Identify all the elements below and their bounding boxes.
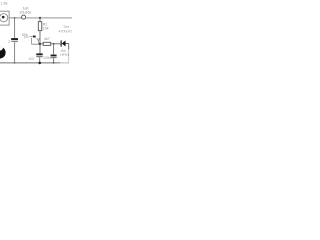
svg-text:The: The: [63, 25, 69, 29]
transistor Q1 emitter-collector fork: [37, 38, 40, 44]
svg-text:100u: 100u: [43, 56, 51, 60]
wire R1 bottom to C3: [39, 31, 41, 54]
svg-text:2: 2: [8, 40, 10, 44]
capacitor C3 plate 2: [36, 56, 42, 57]
capacitor C3 plate 1: [36, 53, 42, 55]
svg-text:10k: 10k: [43, 27, 49, 31]
wire C3 to ground rail: [39, 57, 41, 63]
wire C2 to ground rail: [14, 42, 16, 63]
node junction ground at x=53.6: [53, 62, 55, 64]
capacitor C1 (series coupling cap in top rail): [22, 15, 26, 19]
svg-text:100: 100: [28, 57, 34, 61]
node junction ground at x=39.7: [38, 62, 41, 65]
label Q1: [44, 37, 50, 41]
svg-text:R1: R1: [43, 23, 48, 27]
resistor R2: [43, 42, 51, 45]
svg-text:4k7: 4k7: [44, 37, 50, 41]
wire emitter node horizontal: [32, 43, 40, 45]
svg-text:4700uF00: 4700uF00: [59, 29, 73, 33]
label text right annotation: [63, 25, 69, 29]
label 50k (pot label): [22, 33, 28, 37]
svg-text:pot: pot: [24, 35, 29, 39]
wire C4 to ground rail: [53, 58, 55, 63]
wire C4 stem down: [53, 44, 55, 55]
node junction at (53.6,43.8): [53, 43, 55, 45]
label D1: [61, 49, 67, 53]
node junction at x=40 top rail: [39, 17, 41, 19]
diode D1 triangle: [62, 41, 66, 47]
label MIC (top-left): [0, 2, 7, 6]
wire diode to right corner: [66, 43, 69, 45]
wire base stub: [30, 36, 33, 38]
wire node to R2: [40, 43, 43, 45]
earphone logo disc: [0, 46, 6, 59]
svg-text:20u16v: 20u16v: [20, 11, 32, 15]
node junction at x=14.6 top rail: [14, 17, 16, 19]
capacitor C2 plate 1: [11, 38, 18, 40]
wire R1 top stub: [39, 18, 41, 22]
wire pot vertical: [31, 38, 33, 44]
wire from mic junction down: [14, 18, 16, 38]
ground rail: [0, 62, 69, 64]
wire right vertical drop: [68, 44, 70, 63]
capacitor C4 plate 1: [51, 55, 57, 57]
diode D1 cathode bar: [61, 40, 62, 46]
label R1 value: [43, 23, 48, 27]
svg-text:1.5k: 1.5k: [0, 2, 7, 6]
wire R2 to diode: [51, 43, 61, 45]
microphone MIC1 center dot: [2, 16, 5, 19]
microphone MIC1 circle: [0, 14, 8, 22]
capacitor C2 plate 2: [11, 41, 18, 42]
capacitor C4 plate 2: [51, 57, 57, 58]
wire top rail right segment: [26, 17, 72, 19]
node junction at (40,43.8): [39, 43, 41, 45]
node junction ground at x=14.6: [14, 62, 16, 64]
microphone MIC1 box: [0, 11, 9, 25]
label C1 value (above coupling cap): [23, 6, 30, 10]
transistor Q1 base bar blob: [33, 36, 36, 38]
label + of C2: [8, 40, 10, 44]
svg-text:1uF: 1uF: [23, 6, 30, 10]
wire top rail left segment: [9, 17, 22, 19]
resistor R1: [38, 22, 42, 31]
svg-text:HP04: HP04: [60, 53, 69, 57]
label C4 value: [43, 56, 51, 60]
label C3 value: [28, 57, 34, 61]
